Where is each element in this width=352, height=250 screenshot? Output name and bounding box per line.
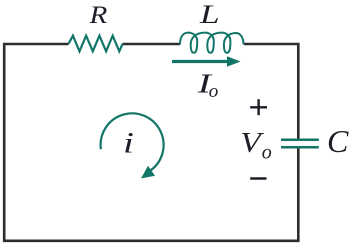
mesh current arc i: [101, 113, 164, 170]
plus sign: [250, 99, 267, 115]
svg-text:o: o: [209, 81, 219, 102]
svg-text:L: L: [199, 0, 220, 29]
minus sign: [250, 177, 266, 180]
resistor R: [69, 36, 123, 52]
svg-text:i: i: [123, 126, 134, 160]
svg-text:o: o: [262, 141, 272, 163]
svg-text:C: C: [327, 123, 349, 159]
mesh current arrowhead: [141, 166, 155, 179]
inductor L: [180, 33, 244, 53]
svg-text:R: R: [88, 1, 107, 29]
capacitor C plates: [281, 140, 319, 147]
svg-text:V: V: [240, 127, 264, 159]
current arrow Io head: [227, 56, 241, 66]
wire: outer loop (left, bottom, top segments, right with capacitor gap): [4, 44, 298, 241]
current arrow Io shaft: [172, 60, 229, 63]
